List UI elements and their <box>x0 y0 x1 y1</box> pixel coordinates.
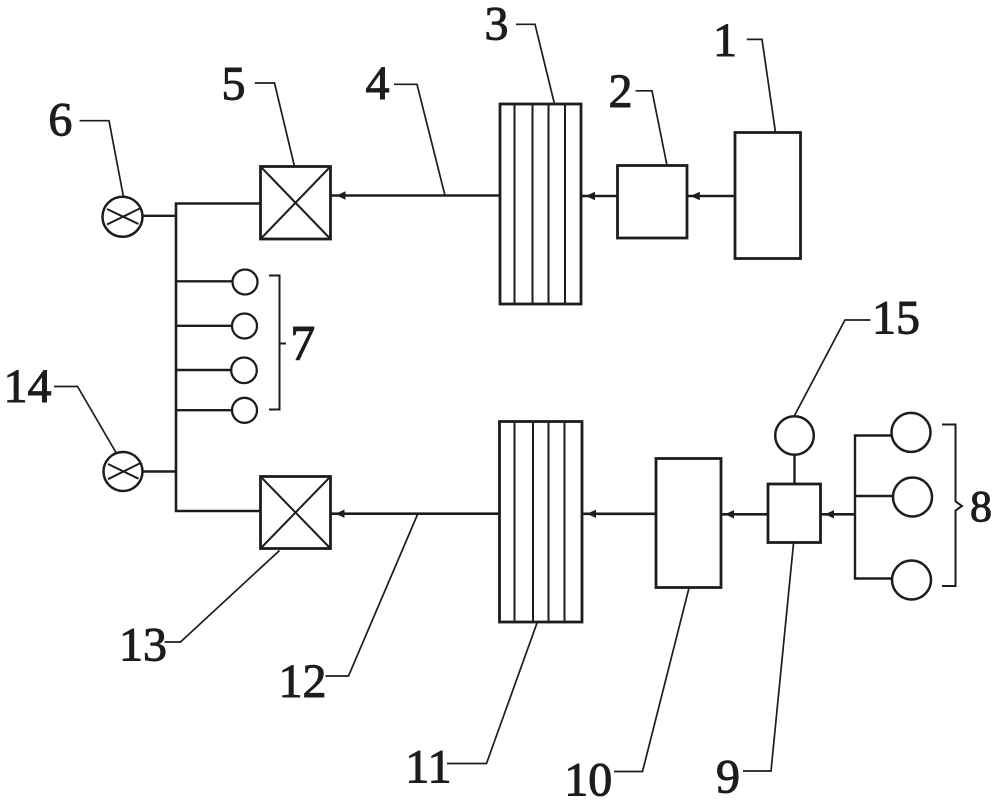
wire 9-10 <box>721 513 768 516</box>
leader line 15 <box>794 320 871 417</box>
unit 1 box <box>735 133 801 259</box>
leader line 6 <box>80 121 124 197</box>
svg-text:6: 6 <box>48 94 72 147</box>
arrow into unit 10 <box>725 510 734 518</box>
leader line 13 <box>165 551 280 643</box>
wire 1-2 <box>687 195 735 198</box>
bracket 7 <box>269 276 286 410</box>
sensor 15 circle <box>775 416 814 455</box>
svg-text:1: 1 <box>713 14 737 67</box>
nozzle circle 7b <box>232 314 257 339</box>
arrow into unit 13 <box>336 510 345 518</box>
svg-text:14: 14 <box>4 360 52 413</box>
svg-text:2: 2 <box>609 65 633 118</box>
wire valve 14 to riser <box>143 470 177 472</box>
svg-text:11: 11 <box>405 740 451 793</box>
svg-text:8: 8 <box>970 482 992 531</box>
unit 3 striped box <box>500 104 581 304</box>
nozzle stub 7d <box>176 409 232 411</box>
svg-text:4: 4 <box>366 57 390 110</box>
leader line 5 <box>255 83 295 167</box>
valve 14 circle with cross <box>104 452 143 491</box>
svg-text:3: 3 <box>485 0 509 51</box>
leader line 10 <box>614 588 689 772</box>
cylinder circle 8a <box>892 413 931 452</box>
wire valve 6 to riser <box>143 215 177 217</box>
arrow into unit 3 <box>586 192 596 200</box>
valve 6 circle with cross <box>103 197 143 237</box>
svg-text:5: 5 <box>222 57 246 110</box>
nozzle circle 7c <box>231 358 257 384</box>
wire sensor 15 to unit 9 <box>793 455 795 484</box>
leader line 2 <box>636 91 668 166</box>
arrow into unit 5 <box>337 191 346 199</box>
nozzle circle 7d <box>232 398 257 423</box>
svg-text:9: 9 <box>716 750 740 802</box>
svg-text:12: 12 <box>279 655 327 708</box>
leader line 1 <box>747 39 776 132</box>
unit 2 box <box>618 166 688 239</box>
nozzle stub 7b <box>176 325 232 327</box>
svg-text:15: 15 <box>872 292 920 345</box>
nozzle circle 7a <box>233 270 258 295</box>
unit 11 striped box <box>500 422 583 623</box>
wire 10-11 <box>582 512 656 515</box>
arrow into unit 11 <box>587 510 596 518</box>
unit 9 box <box>768 484 821 543</box>
wire 12 (11 to 13) <box>331 512 500 515</box>
leader line 12 <box>326 515 418 677</box>
unit 10 box <box>656 459 721 588</box>
leader line 11 <box>447 623 537 764</box>
leader line 3 <box>516 24 555 104</box>
wire 8-9 <box>821 513 856 516</box>
manifold 8 vertical wire with top and bottom stubs <box>855 436 892 579</box>
cylinder circle 8c <box>892 561 931 600</box>
wire 4 (3 to 5) <box>331 194 501 197</box>
leader line 14 <box>54 387 116 453</box>
fan unit 5 crossed box <box>261 167 331 240</box>
svg-text:13: 13 <box>119 619 167 672</box>
wire riser left vertical with branches to units 5 and 13 <box>176 204 261 512</box>
brace 8 <box>942 425 962 587</box>
leader line 9 <box>743 544 794 772</box>
wire 2-3 <box>581 195 618 198</box>
stub 8b <box>855 495 893 497</box>
leader line 4 <box>394 84 445 195</box>
nozzle stub 7a <box>176 280 233 282</box>
arrow into unit 9 <box>825 510 834 518</box>
cylinder circle 8b <box>893 478 932 517</box>
arrow into unit 2 <box>691 192 700 200</box>
svg-text:10: 10 <box>564 753 612 802</box>
nozzle stub 7c <box>176 369 232 371</box>
fan unit 13 crossed box <box>261 477 331 549</box>
svg-text:7: 7 <box>290 314 315 370</box>
